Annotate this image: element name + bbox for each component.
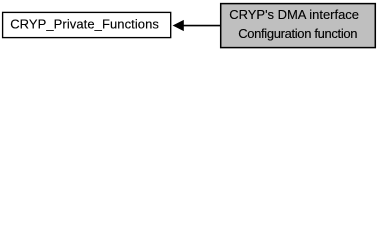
node CRYP's DMA interface Configuration function (current node, grey)	[221, 4, 376, 48]
node CRYP_Private_Functions	[3, 12, 171, 37]
arrowhead pointing left at CRYP_Private_Functions	[173, 20, 184, 31]
svg-text:CRYP_Private_Functions: CRYP_Private_Functions	[10, 17, 159, 32]
svg-text:CRYP's DMA interface: CRYP's DMA interface	[229, 7, 359, 22]
svg-text:Configuration function: Configuration function	[238, 26, 357, 41]
wire: edge from current node to CRYP_Private_Functions	[183, 25, 221, 27]
